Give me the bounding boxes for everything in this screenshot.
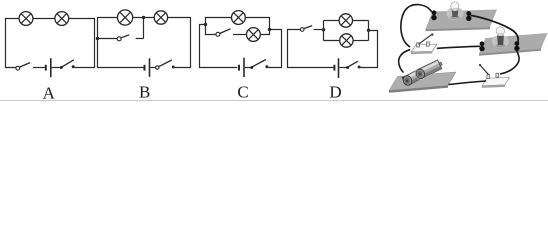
svg-text:C: C (237, 83, 248, 102)
svg-text:B: B (139, 83, 150, 102)
svg-text:D: D (329, 83, 341, 102)
svg-text:A: A (43, 84, 56, 103)
